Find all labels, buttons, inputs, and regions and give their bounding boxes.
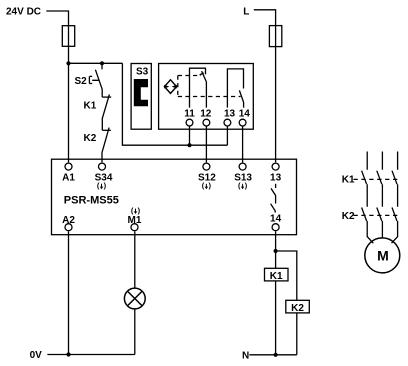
pushbutton S2: [75, 63, 103, 97]
actuator box S3: [131, 64, 151, 130]
safety sensor box: [159, 64, 254, 130]
wire 14 to coils: [275, 231, 277, 354]
svg-text:K2: K2: [84, 133, 97, 144]
terminal A2: [62, 215, 75, 231]
svg-text:K1: K1: [270, 271, 283, 282]
relay output contact 13-14 (redundant): [271, 184, 276, 213]
svg-text:12: 12: [200, 108, 212, 119]
svg-text:A1: A1: [62, 172, 75, 183]
svg-text:14: 14: [270, 213, 282, 224]
node junction K1/N: [274, 353, 278, 357]
wire 0V rail: [47, 354, 134, 356]
wire lamp to 0V: [134, 309, 136, 355]
svg-text:14: 14: [239, 108, 251, 119]
wire sensor 11 to 24V rail: [189, 126, 191, 145]
svg-text:24V DC: 24V DC: [6, 7, 41, 18]
pin 14: [239, 108, 251, 126]
svg-text:): ): [138, 206, 141, 215]
terminal S12: [198, 163, 216, 190]
svg-text:K1: K1: [84, 100, 97, 111]
sensor symbol (diamond): [164, 80, 177, 94]
svg-text:13: 13: [224, 108, 236, 119]
pin 11: [184, 108, 195, 126]
wire 24V feed to A1: [46, 11, 68, 162]
contact K1 (feedback, NC): [84, 94, 112, 130]
terminal S34: [95, 163, 113, 190]
coil K1: [265, 268, 289, 282]
three-phase supply wires: [367, 152, 397, 170]
svg-text:0V: 0V: [30, 350, 43, 361]
coil K2: [286, 300, 310, 314]
pin 13: [224, 108, 236, 126]
wire top rail: [69, 62, 123, 64]
mechanical linkage (dashed): [178, 76, 241, 97]
wire rail down to sensor supply: [122, 63, 227, 145]
fuse F2: [269, 26, 281, 47]
svg-text:K2: K2: [291, 303, 304, 314]
wire A2 to 0V: [68, 231, 70, 354]
terminal S13: [234, 163, 252, 190]
node junction S2 branch: [100, 61, 104, 65]
sensor contact 13-14 (NO): [227, 69, 243, 108]
terminal 14: [270, 213, 282, 230]
svg-text:L: L: [243, 6, 249, 17]
wire sensor 12 to S12: [205, 126, 207, 162]
wires to motor: [367, 221, 397, 243]
svg-text:PSR-MS55: PSR-MS55: [64, 194, 119, 206]
svg-text:S12: S12: [198, 172, 216, 183]
wire branch to K2 coil: [276, 251, 297, 355]
node junction coil branch: [274, 249, 278, 253]
svg-text:(: (: [131, 206, 134, 215]
svg-text:S3: S3: [136, 67, 149, 78]
svg-text:N: N: [242, 351, 249, 362]
svg-text:13: 13: [270, 172, 282, 183]
svg-text:K1: K1: [342, 174, 355, 185]
wire sensor 14 to S13: [242, 126, 244, 162]
contact K2 (feedback, NC): [84, 128, 111, 163]
terminal M1: [128, 206, 142, 231]
svg-text:11: 11: [184, 108, 195, 119]
relay PSR-MS55 body: [52, 159, 297, 235]
svg-text:K2: K2: [342, 211, 355, 222]
contactor K2 main contacts: [342, 208, 399, 222]
node junction 24V rail: [66, 61, 70, 65]
wire sensor 13 to 24V rail: [226, 126, 228, 145]
wire N rail: [249, 354, 296, 356]
indicator lamp: [124, 288, 145, 309]
wire L feed to 13: [254, 10, 276, 163]
sensor contact 11-12 (NC): [190, 68, 207, 107]
fuse F1: [62, 26, 74, 47]
svg-text:S13: S13: [234, 172, 252, 183]
svg-text:M: M: [377, 247, 389, 263]
terminal A1: [62, 163, 75, 183]
contactor K1 main contacts: [342, 171, 399, 186]
node junction A2/0V: [66, 352, 70, 356]
terminal 13: [270, 163, 282, 183]
wire M1 to lamp: [134, 231, 136, 288]
motor M: [365, 238, 400, 273]
svg-text:S2: S2: [75, 76, 88, 87]
node junction terminal 11 drop: [187, 143, 191, 147]
wires between contactor rows: [367, 184, 397, 207]
pin 12: [200, 108, 212, 126]
